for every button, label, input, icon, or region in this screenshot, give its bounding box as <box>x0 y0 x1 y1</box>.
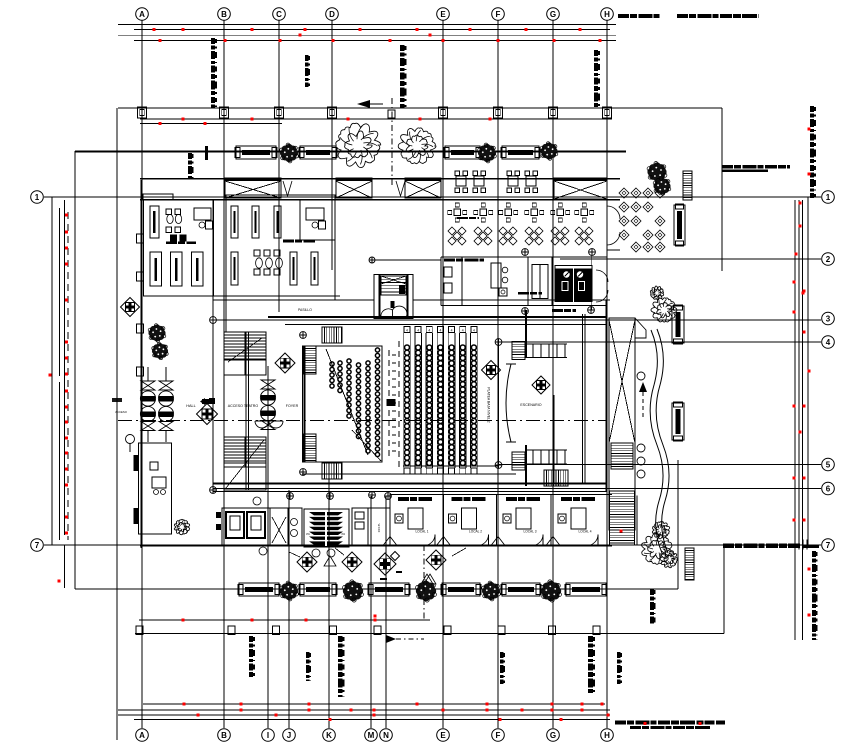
building top wall <box>140 178 620 180</box>
garden bench 3 <box>674 205 685 245</box>
bottom planter tree 3 <box>428 587 437 596</box>
grid row line 2 <box>560 258 821 260</box>
plaza diamond 3 <box>374 553 396 575</box>
top band line 1 <box>118 24 616 26</box>
svg-text:LOCAL 1: LOCAL 1 <box>416 530 429 534</box>
svg-text:PASILLO: PASILLO <box>298 308 312 312</box>
line7 text note <box>723 544 734 549</box>
grid bubble 6 right <box>822 482 835 495</box>
garden bench 1 <box>672 306 684 343</box>
right property line b <box>798 200 800 545</box>
left dim line c <box>64 200 66 535</box>
dim text strip A-B <box>188 153 192 159</box>
svg-text:1: 1 <box>826 193 831 202</box>
right tree 3 <box>650 286 663 300</box>
dim text strip bottom 3 <box>338 636 343 642</box>
grid bubble C top <box>273 8 286 21</box>
shaft box 4 <box>554 178 607 199</box>
site boundary vertical left <box>116 108 118 740</box>
top planter bench 2 <box>300 146 336 159</box>
bottom right corner dim vertical <box>723 545 725 634</box>
svg-text:4: 4 <box>406 329 408 333</box>
garden wavy path <box>650 330 663 553</box>
escalator box <box>609 318 635 530</box>
garden bench 2 <box>672 403 684 440</box>
wing entry comb top <box>322 327 342 343</box>
big tree 1 <box>336 123 381 167</box>
grid bubble 5 right <box>822 458 835 471</box>
right mid text note <box>722 165 733 168</box>
grid bubble M bottom <box>365 729 378 742</box>
grid bubble 7 left <box>31 539 44 552</box>
stage upper text <box>552 309 563 312</box>
shop door zigzags <box>383 537 397 546</box>
grid row line 5 <box>499 464 821 466</box>
svg-text:J: J <box>287 731 291 740</box>
bottom band line 3 <box>118 714 610 716</box>
office room 2 desk <box>306 208 324 220</box>
wc vestibule <box>368 508 390 546</box>
red markers left strip <box>65 214 68 217</box>
hall column row B <box>165 367 167 381</box>
bottom planter bench 4 <box>442 583 480 596</box>
svg-text:4: 4 <box>826 338 831 347</box>
wc corridor <box>270 508 288 546</box>
shaft box 2 <box>336 178 372 198</box>
ticket desk <box>491 263 501 288</box>
grid bubble D top <box>326 8 339 21</box>
svg-text:E: E <box>440 731 446 740</box>
top right text note a <box>618 14 629 18</box>
grid row line 6 <box>213 488 821 490</box>
svg-text:ACCESO TEATRO: ACCESO TEATRO <box>228 404 259 408</box>
grid column line K <box>328 462 330 728</box>
north arrow <box>357 100 370 108</box>
top planter tree 2 <box>489 149 497 157</box>
grid bubble B bottom <box>218 729 231 742</box>
grid column line G <box>552 21 554 729</box>
svg-text:H: H <box>604 10 610 19</box>
elevator axis line <box>591 253 593 310</box>
ticket room shelves <box>444 267 452 277</box>
left dim line a <box>51 197 53 545</box>
building left wall <box>140 180 142 548</box>
svg-text:F: F <box>496 10 501 19</box>
right dim strip lower <box>812 551 816 557</box>
svg-text:C: C <box>276 10 282 19</box>
bottom red dim line <box>139 619 430 621</box>
grid bubble 1 right <box>822 191 835 204</box>
svg-text:LOCAL 3: LOCAL 3 <box>524 530 537 534</box>
shops top wall <box>390 494 612 496</box>
svg-text:4: 4 <box>462 329 464 333</box>
svg-text:4: 4 <box>473 329 475 333</box>
svg-text:7: 7 <box>826 541 831 550</box>
hall trees <box>158 329 165 336</box>
office room 2 label <box>283 240 294 243</box>
dim text strip bottom 1 <box>249 636 253 642</box>
grid column line F <box>497 21 499 729</box>
grid column line B <box>223 21 225 729</box>
theatre right wall <box>605 300 607 491</box>
garden arrow <box>639 382 647 392</box>
grid bubble 2 right <box>822 253 835 266</box>
grid column line N <box>385 496 387 728</box>
top band line 2 <box>134 28 610 30</box>
grid bubble A bottom <box>136 729 149 742</box>
grid bubble E bottom <box>437 729 450 742</box>
stage posts top <box>525 343 567 345</box>
bottom planter tree 2 <box>355 587 364 596</box>
rooms bottom wall <box>143 295 340 297</box>
svg-text:G: G <box>550 731 556 740</box>
hall entrance double door <box>255 421 269 428</box>
left wall pilasters <box>137 234 144 243</box>
corridor wall vertical <box>212 200 214 490</box>
office room 1 dark chairs <box>170 235 177 242</box>
grid column line I <box>267 374 269 728</box>
svg-text:4: 4 <box>451 329 453 333</box>
dim text strip bottom 6 <box>617 652 621 658</box>
svg-text:2: 2 <box>826 255 831 264</box>
svg-text:4: 4 <box>440 329 442 333</box>
shaft box 3 <box>405 178 441 198</box>
bottom planter bench 6 <box>566 583 606 596</box>
theatre nodes <box>300 332 307 339</box>
right dim text strip upper <box>810 106 814 112</box>
top planter bench 4 <box>502 146 539 159</box>
east terrace wall <box>606 199 608 250</box>
seating right boundary <box>498 341 500 468</box>
theatre bottom wall <box>213 483 607 485</box>
wing wall combs <box>303 346 316 374</box>
dim text strip FG top <box>594 50 598 56</box>
svg-text:A: A <box>139 10 145 19</box>
main seating strips <box>403 333 405 468</box>
elevator cab block <box>555 269 593 303</box>
wing aisle dashes <box>388 350 390 460</box>
svg-text:6: 6 <box>826 484 831 493</box>
restaurant mid wall <box>443 199 612 201</box>
plaza diamond 4 <box>426 550 446 570</box>
grid bubble H bottom <box>601 729 614 742</box>
wing seat rows <box>330 362 334 366</box>
stage bottom walls <box>403 465 499 467</box>
ticket rooms top wall <box>441 256 607 258</box>
right property line c <box>802 200 804 640</box>
svg-text:W.XXX: W.XXX <box>377 524 381 533</box>
grid bubble E top <box>437 8 450 21</box>
theatre side wing box <box>303 346 383 462</box>
bottom right text note <box>615 721 626 725</box>
bottom planter bench 3 <box>369 583 409 596</box>
plaza nodes <box>253 497 261 505</box>
svg-text:E: E <box>440 10 446 19</box>
small office desk <box>152 477 166 488</box>
red marker shops <box>620 530 623 533</box>
stage right wall <box>582 314 584 483</box>
shops row <box>390 495 443 546</box>
hall column row A <box>147 367 149 381</box>
dim text strip D top <box>400 45 405 51</box>
secondary dim line top <box>140 118 612 120</box>
grid bubble G bottom <box>547 729 560 742</box>
garden stepping dots <box>637 372 645 380</box>
grid bubble F bottom <box>492 729 505 742</box>
svg-text:5: 5 <box>826 460 831 469</box>
top wall door V 2 <box>396 181 405 196</box>
svg-text:3: 3 <box>826 314 831 323</box>
dim text strip bottom 4 <box>500 652 504 658</box>
wc room 2 <box>288 508 302 546</box>
grid bubble B top <box>218 8 231 21</box>
restaurant row2 round tables <box>454 209 461 216</box>
grid column line C <box>278 21 280 313</box>
hall node circle <box>126 435 135 444</box>
ticket room label <box>444 259 455 262</box>
office room 1 walls <box>144 200 214 296</box>
small office tree <box>174 519 189 534</box>
ticket room walls <box>440 257 442 306</box>
svg-text:B: B <box>221 731 227 740</box>
grid row line 7 <box>44 544 821 546</box>
bottom planter tree 5 <box>553 587 562 596</box>
svg-text:B: B <box>221 10 227 19</box>
bottom arrow symbol <box>386 635 396 643</box>
svg-text:ACCESO: ACCESO <box>115 410 128 414</box>
bottom band line 2 <box>118 709 610 711</box>
grid column line D <box>331 21 333 271</box>
foyer column row <box>267 366 269 380</box>
office room 1 chairs <box>166 209 172 215</box>
office room 1 label <box>166 242 177 245</box>
terrace diamond tables <box>619 188 629 198</box>
stage lower stair comb <box>544 470 568 486</box>
svg-text:HALL: HALL <box>186 404 196 408</box>
grid bubble 7 right <box>822 539 835 552</box>
svg-text:M: M <box>368 731 375 740</box>
grid bubble A top <box>136 8 149 21</box>
top planter tree 1 <box>291 149 299 157</box>
restaurant row3 diamond tables <box>448 227 456 235</box>
proscenium curve <box>506 364 511 442</box>
grid bubble F top <box>492 8 505 21</box>
grid column line M <box>370 496 372 728</box>
right tree 4 <box>642 534 673 565</box>
grid bubble 3 right <box>822 312 835 325</box>
stair right of shops <box>636 496 638 546</box>
garden hatch strip 1 <box>683 171 692 200</box>
restaurant label <box>457 217 468 219</box>
garden hatch strip 2 <box>685 548 694 580</box>
elevator shaft inner <box>532 265 548 299</box>
svg-text:D: D <box>329 10 335 19</box>
top band line 3 <box>118 34 616 36</box>
svg-text:A: A <box>139 731 145 740</box>
wc room 3 <box>352 508 368 546</box>
office room 2 walls <box>226 195 335 300</box>
stage side wall bottom <box>525 445 527 486</box>
elevator lobby door arcs <box>596 270 608 282</box>
svg-text:4: 4 <box>417 329 419 333</box>
seating area diamond <box>482 361 501 380</box>
svg-text:F: F <box>496 731 501 740</box>
left stair lower <box>224 437 266 467</box>
building bottom wall <box>140 545 612 547</box>
bottom planter bench 2 <box>300 583 336 596</box>
small office walls <box>139 443 172 534</box>
office room 2 tables bottom <box>231 252 238 285</box>
office room 2 meeting chairs <box>254 250 260 256</box>
centerline theatre <box>118 420 607 422</box>
grid column line A <box>141 21 143 729</box>
grid bubble H top <box>601 8 614 21</box>
stage side wall top <box>525 310 527 358</box>
grid column line J <box>288 490 290 728</box>
big tree 2 <box>398 128 436 164</box>
grid row line 4 <box>499 341 822 343</box>
wc room 1 <box>222 508 270 546</box>
small planter above room1 <box>143 194 173 200</box>
plaza diamond 1 <box>297 552 317 572</box>
svg-text:I: I <box>267 731 269 740</box>
stage diamond <box>532 376 550 394</box>
grid bubble 4 right <box>822 336 835 349</box>
svg-text:1: 1 <box>35 193 40 202</box>
grid bubble N bottom <box>380 729 393 742</box>
dim text strip south 1 <box>650 589 654 595</box>
wc louver stack <box>304 509 349 547</box>
bottom planter bench 5 <box>502 583 540 596</box>
stage centre post line <box>553 395 555 483</box>
red markers right strip <box>793 281 796 284</box>
svg-text:G: G <box>550 10 556 19</box>
left dim dashes <box>67 212 69 540</box>
top planter bench 1 <box>236 146 276 159</box>
svg-text:LOCAL 4: LOCAL 4 <box>579 530 592 534</box>
upper hall diamond <box>121 298 140 317</box>
office room 2 tables top <box>231 206 238 238</box>
svg-text:FOYER: FOYER <box>286 404 299 408</box>
office room 1 tables <box>150 206 159 238</box>
dim text strip bottom 5 <box>588 636 593 642</box>
grid column line E <box>442 21 444 729</box>
theatre top wall <box>268 316 607 318</box>
hall mid label <box>518 292 529 295</box>
stage combs left <box>512 342 525 360</box>
grid bubble G top <box>547 8 560 21</box>
top band column ticks <box>141 21 143 42</box>
south wing boundary <box>75 588 678 590</box>
left stair upper <box>224 332 266 375</box>
foyer diamond <box>275 353 295 373</box>
grid bubble I bottom <box>262 729 275 742</box>
bottom planter tree 1 <box>291 587 299 595</box>
corridor node row <box>522 249 529 256</box>
top band line 4 <box>134 39 616 41</box>
dim text strip bottom 2 <box>306 652 310 658</box>
bottom band line 1 <box>143 703 605 705</box>
bottom band line 4 <box>134 719 610 721</box>
svg-text:PLATEA BAJA NIVEL 2: PLATEA BAJA NIVEL 2 <box>487 387 491 422</box>
right property line a <box>794 200 796 640</box>
bottom planter bench 1 <box>239 583 279 596</box>
shop axis dash line <box>423 545 425 620</box>
restaurant row1 tables <box>456 176 466 186</box>
stair B dim node <box>369 257 375 263</box>
outer boundary top <box>75 151 626 153</box>
ticket rooms bottom wall <box>441 305 607 307</box>
stage posts bottom <box>525 449 567 451</box>
top planter tree 3 <box>550 147 557 154</box>
dim text strip B top <box>211 38 215 44</box>
corridor bottom wall <box>213 299 374 301</box>
bottom planter tree 4 <box>493 587 501 595</box>
grid row line 1 <box>44 196 821 198</box>
bottom band column ticks <box>141 704 143 728</box>
svg-text:7: 7 <box>35 541 40 550</box>
shaft box 1 <box>225 178 281 198</box>
svg-text:4: 4 <box>428 329 430 333</box>
left outer boundary vertical <box>74 151 76 589</box>
dim text strip CD top <box>305 55 309 61</box>
small office wall boxes <box>134 455 139 471</box>
door swings on wall H <box>607 206 620 219</box>
red markers bottom band <box>183 703 186 706</box>
svg-text:LOCAL 2: LOCAL 2 <box>469 530 482 534</box>
bottom dimension line with column markers <box>135 633 724 635</box>
top wall door V 1 <box>283 181 292 196</box>
svg-text:H: H <box>604 731 610 740</box>
right tree 1 <box>659 168 667 176</box>
stair B block <box>374 275 413 319</box>
grid row line 3 <box>213 319 821 321</box>
grid column line H <box>606 21 608 729</box>
svg-text:K: K <box>326 731 332 740</box>
grid bubble J bottom <box>283 729 296 742</box>
svg-text:ESCENARIO: ESCENARIO <box>520 403 541 407</box>
plaza diamond 2 <box>342 552 362 572</box>
grid bubble 1 left <box>31 191 44 204</box>
top planter bench 3 <box>445 146 480 159</box>
site corner vertical right <box>721 108 723 271</box>
red markers top band <box>153 28 156 31</box>
office room 1 desk <box>194 208 211 220</box>
left dim line b <box>59 208 61 376</box>
svg-text:N: N <box>383 731 389 740</box>
grid bubble K bottom <box>323 729 336 742</box>
right tree 2 <box>651 298 677 322</box>
column markers top <box>138 107 147 118</box>
upper boundary line <box>118 107 722 109</box>
hall diamond <box>197 404 218 425</box>
wing entry comb bottom <box>322 463 342 479</box>
wing diagonal <box>326 349 368 455</box>
right property line d <box>807 197 809 545</box>
top right text note b <box>677 14 688 18</box>
